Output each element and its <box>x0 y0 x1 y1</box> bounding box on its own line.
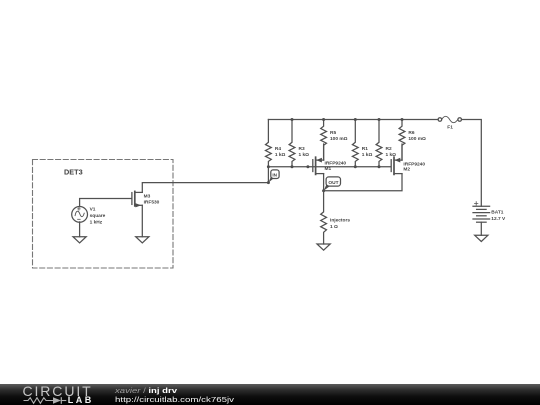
svg-text:100 mΩ: 100 mΩ <box>330 136 348 142</box>
net flag OUT <box>324 177 341 191</box>
svg-text:1 kΩ: 1 kΩ <box>299 152 310 158</box>
transistor M3 IRF530 <box>132 191 160 207</box>
svg-text:R5: R5 <box>330 130 336 136</box>
footer logo LAB <box>68 396 94 404</box>
ground (below V1) <box>73 237 86 243</box>
svg-text:M3: M3 <box>144 193 151 199</box>
ground (below M3) <box>136 237 149 243</box>
voltage source V1 <box>72 207 106 226</box>
junction (R4 bottom, gate rail) <box>267 165 270 168</box>
svg-text:R1: R1 <box>362 146 368 152</box>
wire top supply rail <box>268 119 438 121</box>
svg-text:R2: R2 <box>386 146 392 152</box>
svg-text:R3: R3 <box>299 146 305 152</box>
junction (R3 top, supply rail) <box>291 118 294 121</box>
svg-text:1 kHz: 1 kHz <box>90 219 103 225</box>
wire gate rail <box>268 166 390 168</box>
footer title <box>115 387 177 395</box>
resistor R4 1k <box>266 120 286 167</box>
wire M2 drain down to OUT rail <box>324 174 402 191</box>
junction (M1 gate pin, gate rail) <box>306 165 309 168</box>
wire V1 top to M3 gate <box>80 199 132 207</box>
junction (R1 bottom, gate rail) <box>354 165 357 168</box>
svg-text:square: square <box>90 213 106 219</box>
ground (below BAT1) <box>475 235 488 241</box>
svg-text:DET3: DET3 <box>64 168 83 177</box>
battery BAT1 <box>473 202 506 223</box>
resistor R5 100m <box>321 120 348 161</box>
footer logo CIRCUIT <box>23 385 93 398</box>
transistor M2 IRFP9240 <box>391 157 425 174</box>
svg-text:R6: R6 <box>408 130 414 136</box>
wire V1 bottom to ground <box>79 222 81 237</box>
wire fuse to battery <box>462 120 482 207</box>
svg-text:OUT: OUT <box>328 180 338 186</box>
junction (R2 top, supply rail) <box>378 118 381 121</box>
junction (R5 top, supply rail) <box>322 118 325 121</box>
ground (below Injectors) <box>317 244 330 250</box>
junction (OUT node) <box>322 189 325 192</box>
svg-text:IN: IN <box>272 173 277 178</box>
enclosure DET3 <box>33 160 174 269</box>
svg-text:F1: F1 <box>447 125 453 131</box>
resistor R1 1k <box>352 120 372 167</box>
wire M3 source to ground <box>141 205 143 236</box>
wire battery to ground <box>480 222 482 235</box>
transistor M1 IRFP9240 <box>313 157 347 174</box>
svg-text:1 kΩ: 1 kΩ <box>362 152 373 158</box>
wire M2 source up to R6 <box>401 144 403 160</box>
footer url <box>115 396 234 404</box>
svg-text:IRF530: IRF530 <box>144 200 160 206</box>
svg-text:R4: R4 <box>275 146 281 152</box>
svg-text:1 Ω: 1 Ω <box>330 224 338 230</box>
svg-text:100 mΩ: 100 mΩ <box>408 136 426 142</box>
wire M1 drain down to OUT node <box>323 174 325 191</box>
wire M1 source up to R5 <box>323 144 325 160</box>
junction (IN wire end) <box>267 181 270 184</box>
svg-text:Injectors: Injectors <box>330 218 350 224</box>
footer logo zigzag-diode <box>0 384 110 405</box>
resistor R6 100m <box>399 120 426 161</box>
resistor Injectors 1 ohm <box>321 191 351 244</box>
resistor R2 1k <box>376 120 396 167</box>
wire M3 drain up and right to IN <box>142 183 268 193</box>
resistor R3 1k <box>289 120 309 167</box>
junction (R6 top, supply rail) <box>401 118 404 121</box>
svg-text:M1: M1 <box>325 166 332 172</box>
svg-text:V1: V1 <box>90 207 96 213</box>
net flag IN <box>269 170 279 183</box>
svg-text:IRFP9240: IRFP9240 <box>403 161 425 167</box>
fuse F1 <box>438 116 461 130</box>
svg-text:1 kΩ: 1 kΩ <box>275 152 286 158</box>
wire IN vertical <box>267 167 269 183</box>
svg-text:12.7 V: 12.7 V <box>491 216 506 222</box>
junction (R3 bottom, gate rail) <box>291 165 294 168</box>
svg-text:BAT1: BAT1 <box>491 210 504 216</box>
junction (R2 bottom, gate rail) <box>378 165 381 168</box>
svg-text:M2: M2 <box>403 167 410 173</box>
svg-text:IRFP9240: IRFP9240 <box>325 161 347 167</box>
junction (R1 top, supply rail) <box>354 118 357 121</box>
footer bar <box>0 384 540 405</box>
